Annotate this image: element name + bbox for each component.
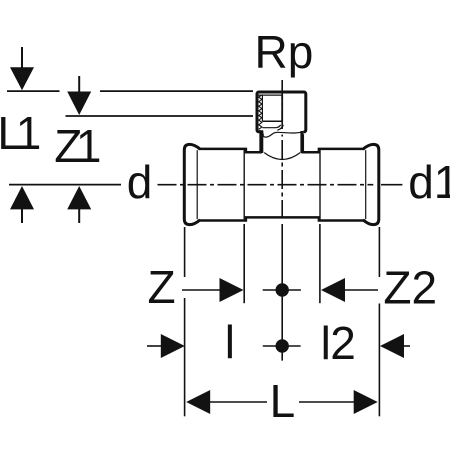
svg-text:Z2: Z2 (383, 262, 437, 314)
svg-text:Z: Z (148, 261, 176, 313)
svg-text:1: 1 (16, 107, 42, 159)
svg-text:l: l (225, 316, 235, 368)
svg-text:d: d (127, 156, 153, 208)
svg-text:d1: d1 (408, 156, 450, 208)
svg-text:2: 2 (330, 317, 356, 369)
svg-text:Rp: Rp (255, 26, 314, 78)
svg-text:L: L (270, 375, 296, 427)
svg-text:1: 1 (76, 120, 102, 172)
